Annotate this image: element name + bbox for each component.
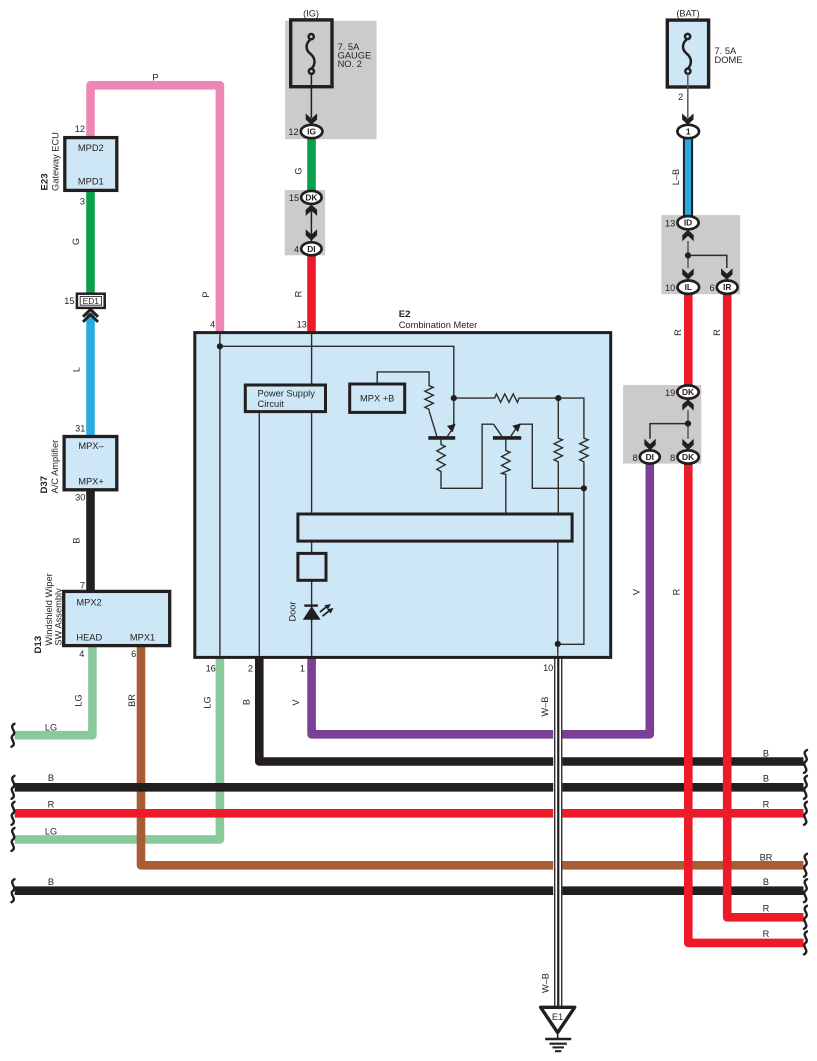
svg-text:4: 4 [294,244,299,254]
svg-text:DI: DI [646,452,654,462]
svg-text:D13: D13 [33,636,44,654]
fuse element IG [307,34,315,74]
arrow down into IR [721,268,732,279]
connector 8 DK [677,450,698,463]
wire ID split to IL and IR [687,241,689,268]
svg-text:BR: BR [760,852,773,862]
svg-text:2: 2 [678,92,683,102]
svg-text:B: B [48,773,54,783]
svg-text:Circuit: Circuit [258,399,285,409]
svg-text:HEAD: HEAD [76,632,102,642]
wire G green IG to DK [307,138,316,197]
svg-text:4: 4 [210,319,215,329]
wire break symbol left B [12,776,15,799]
transistor Q2 [494,424,502,436]
svg-text:R: R [712,329,722,336]
wire internal top horizontal [220,346,454,398]
svg-text:B: B [72,537,82,543]
svg-text:2: 2 [248,664,253,674]
connector ED1 [77,294,105,308]
svg-text:IG: IG [307,127,316,137]
svg-text:ED1: ED1 [83,296,100,306]
connector 8 DI [640,450,660,463]
node junction resistor bottom [581,485,587,491]
wire G green E23 pin3 to ED1 [86,190,95,294]
fuse element BAT [683,34,691,74]
power supply circuit box [245,385,325,412]
svg-text:ID: ID [684,218,692,228]
wire fuse IG to connector 12 [310,74,312,118]
wire break symbol right B [804,750,807,773]
svg-text:BR: BR [127,694,137,707]
wire B bus lower left-right [15,886,804,895]
svg-text:DK: DK [682,452,694,462]
connector 19 DK [677,385,698,398]
svg-text:15: 15 [64,296,74,306]
resistor R right inner [557,398,559,436]
svg-text:31: 31 [75,423,85,433]
wire internal PSC to bar [311,412,313,514]
svg-text:DK: DK [305,192,317,202]
svg-text:12: 12 [288,127,298,137]
svg-text:R: R [48,800,55,810]
wire LG from D13 HEAD pin4 to left break [15,645,93,735]
connector 12 IG [301,125,323,138]
connector 1 [677,125,699,138]
wire R red DI to E2 pin13 [307,249,316,333]
gray shade box fuse IG [285,21,377,140]
svg-text:R: R [763,903,770,913]
svg-text:(IG): (IG) [303,8,319,18]
wire DK to DI with arrows [310,204,312,241]
connector 13 ID [677,216,698,229]
svg-text:R: R [763,929,770,939]
svg-text:L: L [72,367,82,372]
svg-text:Combination Meter: Combination Meter [399,320,478,330]
wire internal right drop to pin10 joint [558,488,584,644]
arrow into IG connector [306,113,317,124]
arrow down into IL [682,268,693,279]
resistor horizontal [493,394,520,402]
svg-text:NO. 2: NO. 2 [338,59,362,69]
svg-text:30: 30 [75,492,85,502]
svg-text:Gateway ECU: Gateway ECU [51,132,61,191]
svg-text:G: G [294,167,304,174]
connector 10 IL [678,281,700,294]
node junction pin10 branch [555,641,561,647]
svg-text:19: 19 [665,388,675,398]
svg-text:1: 1 [686,127,691,137]
wire break symbol left LG [12,724,15,747]
svg-text:V: V [291,699,301,706]
transistor Q1 emitter arrowhead [448,424,455,431]
wire B black D37 pin30 to D13 pin7 [86,490,95,593]
A/C amplifier box D37 [64,437,117,490]
svg-text:A/C Amplifier: A/C Amplifier [50,440,60,494]
ground stem [557,1033,559,1039]
wire R bus left-right [15,809,804,818]
small square component [298,553,326,580]
wire B bus left-right [15,783,804,792]
svg-text:MPX +B: MPX +B [360,394,394,404]
svg-text:(BAT): (BAT) [676,8,699,18]
arrow up into ID [682,230,693,241]
arrow down into DK8 [682,439,693,450]
wire P pink from E23 pin12 to E2 pin4 [91,85,220,333]
wire break symbol right B third [804,879,807,902]
arrow into connector 1 [682,113,693,124]
svg-text:6: 6 [709,283,714,293]
fuse GAUGE NO.2 box [291,20,332,87]
arrow up under DK19 [682,399,693,410]
svg-text:8: 8 [670,453,675,463]
wire break symbol left LG lower [12,828,15,851]
combination meter E2 box [195,333,611,658]
svg-text:W–B: W–B [540,697,550,717]
svg-text:15: 15 [289,193,299,203]
svg-text:G: G [71,238,81,245]
svg-text:IR: IR [723,282,731,292]
svg-text:10: 10 [543,663,553,673]
svg-text:E2: E2 [399,309,411,320]
wire internal square to LED to pin1 [311,580,313,656]
bar component long rectangle [298,514,572,541]
svg-text:16: 16 [206,664,216,674]
MPX +B box [350,384,405,412]
svg-text:6: 6 [131,649,136,659]
node junction pin4 branch [217,343,223,349]
wire internal PSC to pin2 [258,412,260,656]
wire internal bar to square [311,541,313,553]
svg-text:D37: D37 [39,476,50,494]
svg-text:B: B [241,699,251,705]
svg-text:Power Supply: Power Supply [258,389,316,399]
wire LG from E2 pin16 to left break [15,657,220,839]
wire break symbol left B lower [12,879,15,902]
wire internal emitter net T2 [519,424,584,488]
LED emission arrows [320,606,327,612]
wire internal bar to pin10 [557,541,559,656]
svg-text:R: R [763,800,770,810]
wire break symbol right BR [804,854,807,877]
windshield wiper SW box D13 [64,591,170,645]
gateway ECU box E23 [65,138,117,191]
svg-text:10: 10 [665,283,675,293]
svg-text:B: B [763,773,769,783]
svg-text:Windshield Wiper: Windshield Wiper [44,573,54,645]
wire R red IR down to right break [727,294,803,918]
transistor Q2 base bar [493,436,521,440]
resistor under Q1 [440,440,442,443]
svg-text:8: 8 [632,453,637,463]
svg-text:IL: IL [685,282,692,292]
svg-text:LG: LG [203,696,213,708]
resistor R right outer [580,436,588,463]
wire R red IL to DK19 [684,294,693,387]
wire internal rail right with horizontal resistor row [454,397,493,399]
wire break symbol right R second [804,906,807,929]
svg-text:MPX2: MPX2 [76,597,101,607]
wire break symbol right R third [804,931,807,954]
arrow down into DI [306,229,317,240]
connector 6 IR [717,281,738,294]
svg-text:B: B [48,877,54,887]
svg-text:13: 13 [297,319,307,329]
shield chevrons under ED1 [83,309,98,322]
wire BR from D13 MPX1 pin6 to right break [141,645,804,865]
svg-text:LG: LG [45,827,57,837]
svg-text:B: B [763,749,769,759]
ground bars [545,1038,571,1040]
wire R red DK8 down to right break [688,463,803,943]
svg-text:P: P [201,291,211,297]
wire DK19 split to DI8 and DK8 [687,410,689,439]
svg-text:MPX1: MPX1 [130,632,155,642]
node junction resistor rail [555,395,561,401]
gray shade box DK-DI mid [285,190,325,255]
resistor under Q2 [505,440,507,449]
fuse DOME box [667,20,708,87]
svg-text:1: 1 [300,664,305,674]
wire break symbol right B second [804,776,807,799]
wire internal pin13 to power supply circuit [311,334,313,385]
svg-text:B: B [763,877,769,887]
LED Door diode [303,604,334,621]
node junction ID split [685,252,691,258]
svg-text:12: 12 [75,124,85,134]
transistor Q1 collector resistor feed [377,372,429,384]
svg-text:LG: LG [74,694,84,706]
svg-text:E1: E1 [552,1012,563,1022]
svg-text:P: P [152,73,158,83]
svg-text:V: V [632,588,642,595]
svg-text:W–B: W–B [541,973,551,993]
gray shade box DK19-DI8-DK8 [623,385,701,464]
transistor Q1 base bar [428,436,455,440]
svg-text:Door: Door [288,602,298,622]
svg-text:R: R [672,588,682,595]
connector 4 DI [301,242,321,255]
svg-text:7: 7 [80,581,85,591]
transistor Q2 emitter arrowhead [513,424,520,431]
svg-text:SW Assembly: SW Assembly [54,588,64,646]
svg-text:R: R [294,290,304,297]
wire internal Q1 base to Q2 collector [441,424,494,488]
connector 15 DK [301,191,321,204]
transistor Q1 [429,411,437,436]
node junction DK19 split [685,421,691,427]
arrow down into DI8 [644,439,655,450]
svg-text:R: R [673,329,683,336]
svg-text:4: 4 [79,649,84,659]
svg-text:DOME: DOME [715,55,743,65]
wire W-B white-black E2 pin10 to E1 ground [553,659,562,1008]
svg-text:MPD1: MPD1 [78,177,104,187]
svg-text:LG: LG [45,723,57,733]
wire break symbol right R [804,802,807,825]
svg-text:DK: DK [682,387,694,397]
wire B bus from E2 pin2 to right break [259,657,803,762]
wire L blue ED1 to D37 pin31 [86,313,95,438]
svg-text:MPX+: MPX+ [78,476,104,486]
wire fuse DOME to connector 1 [687,74,689,118]
node junction Q1 emitter rail [451,395,457,401]
svg-text:MPX–: MPX– [78,441,104,451]
wire V purple DI8 to E2 pin1 [312,463,650,734]
svg-text:L–B: L–B [671,169,681,185]
svg-text:MPD2: MPD2 [78,143,104,153]
svg-text:13: 13 [665,219,675,229]
resistor above Q1 [425,384,433,411]
wire break symbol left R [12,802,15,825]
wire L-B blue-black fuse DOME to ID [683,138,693,218]
svg-text:E23: E23 [40,173,51,190]
gray shade box ID-IL-IR [661,215,740,294]
ground E1 triangle [541,1007,575,1032]
wire internal vertical pin4 to pin16 [219,334,221,656]
svg-text:DI: DI [307,244,315,254]
arrow up out of DK [306,205,317,216]
svg-text:3: 3 [80,196,85,206]
